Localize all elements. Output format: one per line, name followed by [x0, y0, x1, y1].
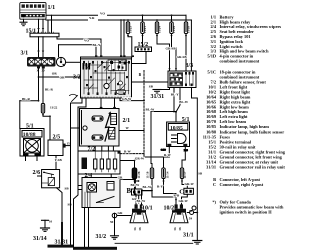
svg-text:11/23: 11/23 [129, 26, 133, 33]
svg-text:11/18: 11/18 [187, 26, 191, 33]
svg-text:2/6: 2/6 [33, 170, 41, 176]
svg-text:59: 59 [110, 220, 114, 224]
wire fuse1 BL-W to 10/1 [135, 179, 137, 205]
svg-text:30: 30 [42, 69, 46, 73]
wire 3/2 to 2/1 [100, 98, 102, 109]
wire Y-R top bus [48, 19, 88, 21]
wire VO top bus [52, 14, 98, 16]
svg-text:GR-W: GR-W [179, 199, 189, 203]
svg-text:2/4: 2/4 [85, 173, 93, 179]
svg-text:VO: VO [84, 38, 89, 42]
svg-text:3/3: 3/3 [186, 63, 194, 69]
svg-text:SB: SB [68, 203, 73, 207]
ground 31/1 [193, 241, 202, 245]
wire BL-R horizontal [20, 100, 39, 102]
svg-text:BL-R: BL-R [22, 97, 30, 101]
wire color labels [22, 12, 202, 231]
wire fuse2 to 10/1 right pin [151, 179, 153, 191]
svg-text:5/1: 5/1 [182, 117, 190, 123]
svg-text:C:15: C:15 [35, 154, 41, 157]
wire battery to 15/1 (left pair with arrows) [37, 19, 44, 33]
wire 2/6 to ground rail [57, 188, 63, 222]
wire B to 10/2 [142, 191, 176, 197]
wire 7/2 GR to connector B [111, 174, 135, 189]
svg-text:11/10: 11/10 [146, 171, 150, 178]
svg-text:59: 59 [189, 216, 193, 220]
wire Y-R bracket to 3/3 [190, 20, 192, 71]
svg-text:C:30: C:30 [161, 149, 167, 152]
wire fuse4 GR-SB to 3/3 [172, 36, 177, 72]
svg-text:B: B [127, 188, 132, 195]
svg-text:GN-W: GN-W [122, 97, 132, 101]
svg-text:ignition switch in position II: ignition switch in position II [220, 209, 272, 214]
svg-text:VO: VO [100, 12, 105, 16]
svg-text:SB: SB [149, 85, 154, 89]
fuse 11/24 [155, 22, 158, 34]
svg-text:Ground connector rail in relay: Ground connector rail in relay unit [220, 165, 286, 170]
30-rail 15/2 [135, 47, 152, 52]
svg-text:OR: OR [52, 71, 58, 75]
interval relay 2/4 [82, 178, 120, 208]
wire BL-R vertical to 5/1 [19, 101, 21, 129]
fuse 11/17 [180, 168, 183, 179]
svg-text:1/1: 1/1 [48, 5, 56, 11]
svg-text:B: B [139, 73, 142, 77]
fuse bottoms [127, 34, 187, 37]
svg-text:10/1: 10/1 [142, 206, 153, 212]
wire 10/2 right lead [187, 212, 189, 214]
svg-text:31/1: 31/1 [183, 233, 194, 239]
fuse top row feeds [127, 20, 129, 22]
wire 15/1 to ignition lock [38, 37, 40, 57]
right front light 10/2 [170, 204, 188, 222]
svg-text:10/88: 10/88 [23, 132, 36, 138]
wire junction to 10/85 [175, 112, 177, 123]
svg-text:BL-W: BL-W [137, 199, 146, 203]
ground 31/14 [41, 220, 50, 231]
fuse 11/18 [184, 22, 187, 34]
svg-text:11/22: 11/22 [50, 106, 58, 110]
SB rail 2 [74, 98, 87, 247]
wire BL-W horizontal to fuse2 [151, 112, 176, 169]
legend [203, 14, 286, 214]
wire fuse 11/22 to 2/5 [43, 113, 50, 140]
wire 3/3 right pin to right rail [192, 88, 198, 241]
svg-text:15/2: 15/2 [138, 42, 149, 48]
wire fuse3 R-Y to 10/2 [164, 179, 177, 205]
wire connector to ground 31/2 [114, 218, 116, 236]
wire OR to 3/2 [39, 76, 81, 78]
svg-text:SB: SB [198, 172, 202, 176]
svg-text:GR-W: GR-W [135, 157, 145, 161]
svg-text:58: 58 [138, 227, 142, 231]
svg-text:56: 56 [133, 227, 137, 231]
connector (single pin) [112, 213, 117, 218]
wire 10/85 left pin R-W [168, 147, 170, 158]
svg-text:GR: GR [118, 211, 124, 215]
node labels [21, 5, 194, 246]
wire 15/1 to VO lower [57, 37, 68, 39]
bulb failure sensor 7/2 [78, 151, 120, 174]
svg-text:R-W: R-W [164, 153, 171, 157]
ground 31/31 (at 3/3) [153, 90, 161, 94]
svg-text:11/14: 11/14 [166, 171, 170, 178]
svg-text:BL-Y: BL-Y [171, 93, 179, 97]
wire 3/3 BL-W down [176, 88, 180, 113]
svg-text:15: 15 [67, 142, 71, 146]
svg-text:GR-SB: GR-SB [177, 55, 188, 59]
connector (single pin right) [192, 206, 196, 210]
wire 10/88 pins [25, 156, 27, 161]
svg-text:BL-W: BL-W [179, 100, 188, 104]
wire 10/1 left lead [117, 215, 131, 217]
svg-text:15/1: 15/1 [26, 28, 37, 34]
wire 2/5 to SB rail [66, 145, 71, 147]
svg-text:Y-SB: Y-SB [55, 158, 63, 162]
svg-text:10: 10 [49, 220, 53, 224]
fuse 11/21 [141, 22, 144, 34]
svg-text:5/1C: 5/1C [207, 69, 216, 74]
svg-text:31/31: 31/31 [151, 94, 165, 100]
svg-text:Y-R: Y-R [89, 16, 95, 20]
wire lock pin 30 down [42, 69, 44, 104]
svg-text:BL-W: BL-W [131, 183, 140, 187]
fuse 11/22 [41, 104, 44, 114]
wire Y-R drops to 3/2 [120, 20, 122, 57]
wire battery to VO bus [46, 15, 52, 33]
svg-text:31/14: 31/14 [33, 236, 47, 242]
wire fuse5 to 3/3 [185, 36, 187, 72]
svg-text:11/24: 11/24 [158, 26, 162, 33]
wire 10/85 right pin to fuse4 [182, 147, 185, 169]
arrow marks into 3/3 [168, 68, 170, 70]
indicator lamp 10/88 in 5/1 [20, 129, 44, 157]
indicator lamp 10/85 in 5/1 [167, 122, 190, 147]
svg-text:X: X [37, 69, 40, 73]
svg-text:31/31: 31/31 [206, 165, 216, 170]
svg-text:combined instrument: combined instrument [220, 74, 260, 79]
fuse 11/14 [162, 168, 165, 179]
wire GN-W from 3/2 bottom to dashed [120, 98, 144, 101]
svg-text:11/17: 11/17 [183, 171, 187, 178]
wire 7/2 GR-W to fuse [120, 161, 135, 169]
svg-text:C: C [213, 182, 216, 187]
battery 1/1 [20, 3, 46, 20]
wire C to 10/2 [182, 194, 188, 204]
dashed wire (Canada) vertical [143, 71, 145, 154]
high/low beam switch 3/3 [168, 71, 196, 88]
wire 15/2 to 3/2 right pin [132, 52, 147, 64]
wire 3/3 BL-Y down [173, 88, 175, 113]
wire fuse2 to 15/2 [142, 36, 144, 48]
wire to 2/6 left pin [38, 175, 43, 177]
wire 2/4 to 31/31 rail [84, 208, 86, 247]
svg-text:D:5: D:5 [184, 149, 189, 152]
dashed wire (Canada) horizontal [120, 153, 144, 155]
SB rail left [71, 98, 83, 245]
wire fuse1 to 3/2 [128, 36, 132, 58]
ignition lock 3/1 [27, 51, 66, 69]
svg-text:GR-SB: GR-SB [166, 47, 177, 51]
svg-text:BL-Y: BL-Y [93, 43, 101, 47]
svg-text:R-W: R-W [124, 150, 131, 154]
svg-text:Connector, right A-post: Connector, right A-post [220, 182, 264, 187]
fuse 11/23 [126, 22, 129, 34]
svg-text:11/19: 11/19 [172, 26, 176, 33]
wire lock to 3/2 left pin [66, 61, 81, 63]
wire lock pin X down [38, 69, 40, 101]
svg-text:SB: SB [65, 187, 70, 191]
svg-text:BL-R: BL-R [45, 88, 53, 92]
wire fuse3 GR-SB to 3/3 [157, 36, 170, 72]
svg-text:R-Y: R-Y [157, 184, 163, 188]
svg-text:31/2: 31/2 [96, 234, 107, 240]
wire 2/1 W to dashed [119, 130, 144, 132]
fuse 11/28 [132, 168, 137, 179]
connector C [184, 188, 194, 194]
svg-text:10: 10 [189, 209, 193, 213]
fuse 11/10 [150, 168, 153, 179]
svg-text:GR: GR [118, 176, 124, 180]
svg-text:5/1D: 5/1D [207, 54, 216, 59]
high beam relay 2/1 [80, 107, 120, 146]
svg-text:*): *) [212, 199, 216, 204]
left front light 10/1 [130, 204, 148, 222]
ground 31/2 [111, 236, 119, 239]
wire R-W horizontal [144, 156, 169, 158]
svg-text:C: C [179, 188, 184, 195]
svg-text:BL-W: BL-W [143, 185, 152, 189]
svg-text:56: 56 [173, 227, 177, 231]
light switch 3/2 [81, 55, 135, 98]
svg-text:10/2: 10/2 [164, 206, 175, 212]
wire fuse4 GR-W to 10/2 [182, 179, 187, 189]
svg-text:combined instrument: combined instrument [220, 59, 260, 64]
svg-text:BL-W: BL-W [146, 107, 155, 111]
wire 3/2 GN-W to 3/3 [132, 81, 169, 83]
svg-text:2/5: 2/5 [53, 135, 61, 141]
connector (single pin at 10/2) [190, 211, 194, 215]
wire battery to Y-R bus [46, 20, 48, 33]
svg-text:OR: OR [60, 76, 66, 80]
wire 2/1 coil to SB rail [71, 127, 80, 129]
svg-text:7/2: 7/2 [88, 146, 96, 152]
svg-text:31/31: 31/31 [55, 240, 69, 246]
svg-text:5/1: 5/1 [26, 123, 34, 129]
wire R-W to fuse3 [163, 157, 165, 168]
ground (battery) [20, 19, 27, 26]
svg-text:W: W [126, 126, 130, 130]
ground rail bottom [115, 242, 193, 244]
positive terminal 15/1 [30, 32, 59, 37]
svg-text:2/1: 2/1 [123, 118, 131, 124]
connector B [132, 189, 143, 195]
key warning contact [70, 94, 77, 95]
wire 2/5 down Y-SB to 2/6 [55, 156, 57, 171]
svg-text:58: 58 [178, 227, 182, 231]
svg-text:GR-W: GR-W [185, 182, 195, 186]
wire 2/4 left stubs [78, 185, 82, 187]
seat belt reminder 2/5 [48, 140, 66, 156]
svg-text:10/85: 10/85 [170, 125, 183, 131]
wire 3/2 to 2/1 top right [114, 98, 116, 109]
wire BL-Y to 3/2 [59, 45, 97, 57]
fuse 11/19 [170, 22, 173, 34]
bypass relay 2/6 [42, 170, 60, 188]
svg-text:11/28: 11/28 [137, 171, 141, 178]
wire dashed to R-W [143, 154, 145, 157]
svg-text:3/1: 3/1 [21, 51, 29, 57]
svg-text:11/21: 11/21 [143, 26, 147, 33]
wire 3/3 to ground 31/31 [157, 88, 170, 90]
wire 2/1 to 7/2 pins [94, 146, 96, 151]
ground rail 31/31 heavy [48, 222, 118, 250]
svg-text:3/2: 3/2 [73, 75, 81, 81]
arrow marks at lamp feeds [135, 199, 137, 201]
wire B bottom GR stub [138, 195, 140, 203]
